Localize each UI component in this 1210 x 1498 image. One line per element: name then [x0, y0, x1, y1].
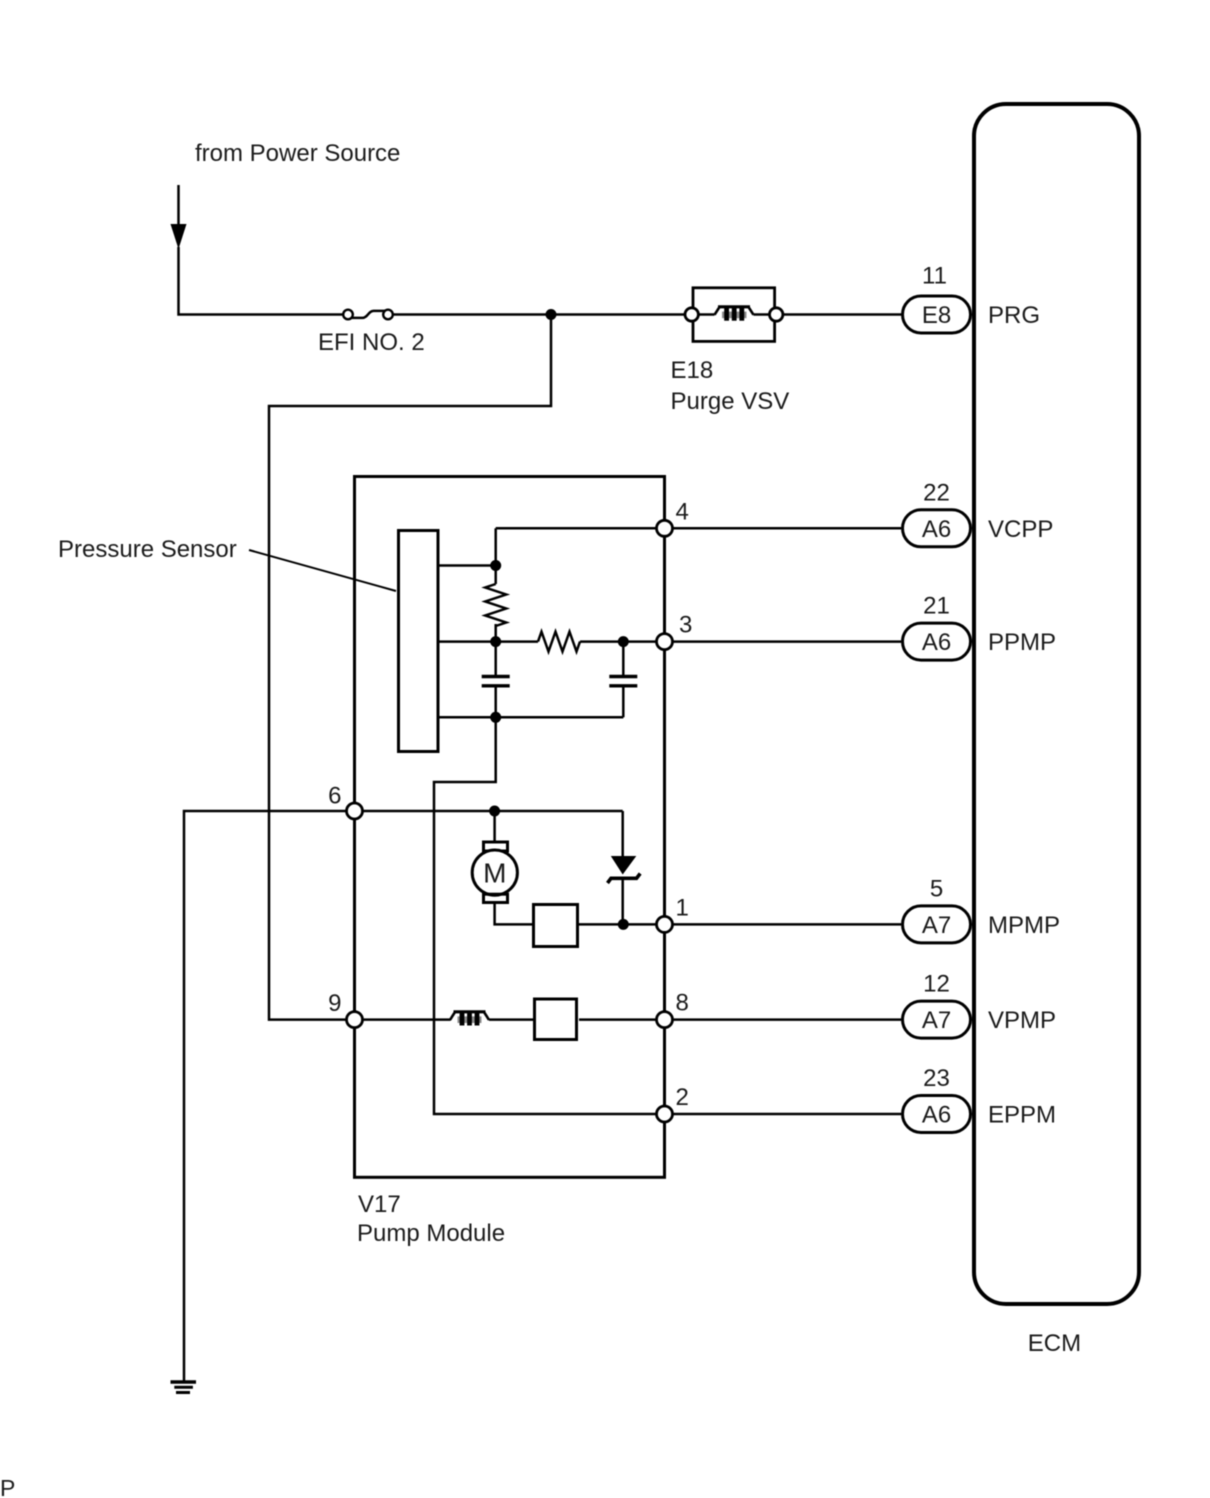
svg-text:PPMP: PPMP: [988, 629, 1056, 656]
svg-text:21: 21: [923, 593, 950, 620]
svg-text:P: P: [0, 1475, 15, 1498]
svg-text:8: 8: [676, 990, 689, 1017]
svg-text:E8: E8: [922, 302, 951, 329]
svg-text:5: 5: [930, 875, 943, 902]
svg-text:A6: A6: [922, 629, 951, 656]
svg-text:9: 9: [328, 990, 341, 1017]
svg-text:3: 3: [679, 612, 692, 639]
svg-text:4: 4: [676, 499, 689, 526]
svg-text:EPPM: EPPM: [988, 1102, 1056, 1129]
svg-text:Purge VSV: Purge VSV: [671, 388, 790, 415]
svg-text:A6: A6: [922, 516, 951, 543]
svg-text:E18: E18: [671, 357, 714, 384]
svg-text:A7: A7: [922, 1007, 951, 1034]
svg-text:A6: A6: [922, 1102, 951, 1129]
svg-text:12: 12: [923, 971, 950, 998]
svg-text:M: M: [483, 858, 506, 889]
svg-text:Pump Module: Pump Module: [357, 1220, 505, 1247]
svg-text:VCPP: VCPP: [988, 516, 1053, 543]
svg-text:Pressure Sensor: Pressure Sensor: [58, 536, 237, 563]
svg-text:1: 1: [676, 894, 689, 921]
svg-text:22: 22: [923, 479, 950, 506]
svg-text:VPMP: VPMP: [988, 1007, 1056, 1034]
svg-text:11: 11: [922, 263, 947, 290]
svg-text:PRG: PRG: [988, 302, 1040, 329]
svg-text:A7: A7: [922, 912, 951, 939]
svg-text:ECM: ECM: [1028, 1330, 1081, 1357]
svg-text:23: 23: [923, 1065, 950, 1092]
svg-text:V17: V17: [358, 1191, 401, 1218]
svg-text:from Power Source: from Power Source: [195, 140, 400, 167]
svg-text:EFI NO. 2: EFI NO. 2: [318, 329, 425, 356]
svg-text:MPMP: MPMP: [988, 912, 1060, 939]
svg-text:6: 6: [328, 783, 341, 810]
svg-text:2: 2: [676, 1084, 689, 1111]
